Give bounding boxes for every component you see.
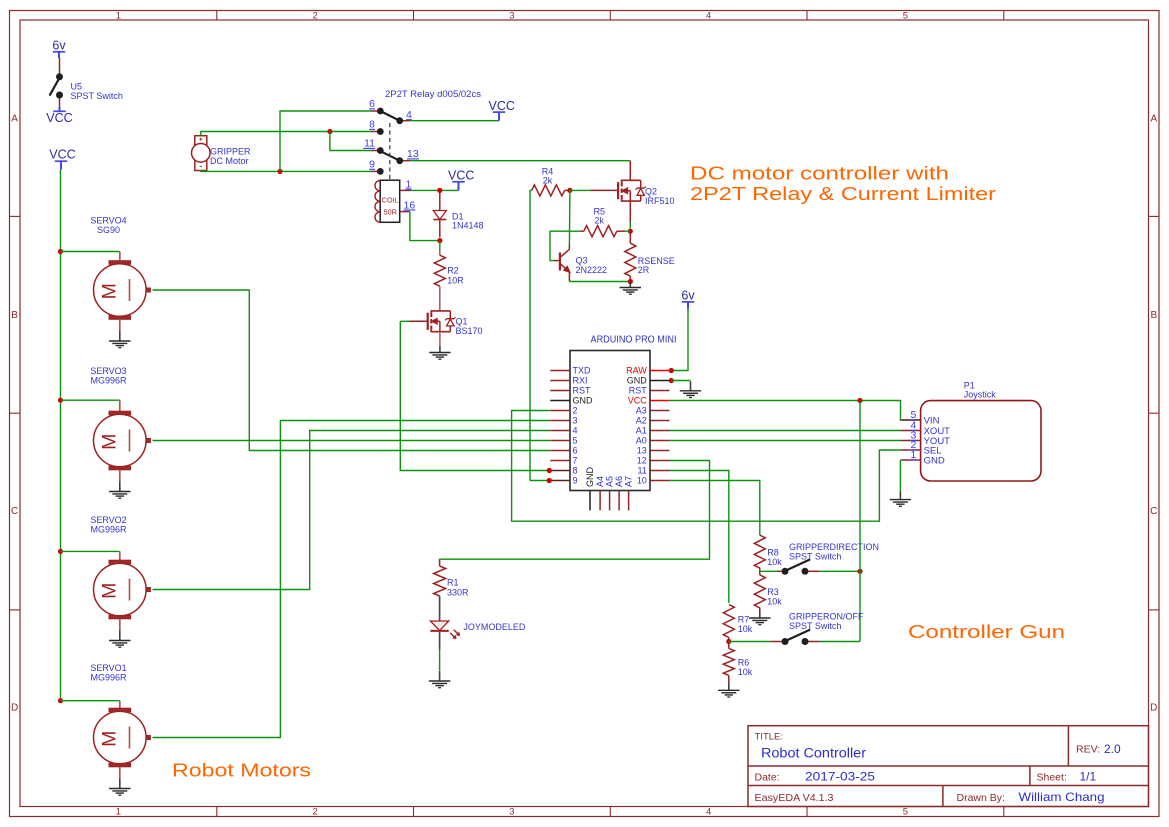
arduino left pin 5 [550, 440, 570, 442]
svg-text:R8: R8 [767, 547, 779, 557]
svg-text:D: D [11, 702, 18, 713]
relay coil pin 1 [400, 189, 411, 191]
svg-text:GND: GND [924, 455, 945, 466]
svg-text:2N2222: 2N2222 [576, 265, 608, 275]
wire pin 10 to R8 [670, 481, 760, 536]
wire Q2 source down [629, 201, 631, 222]
node junction Q2 source / R5 / RSENSE [628, 229, 633, 234]
wire Q1 source to ground [439, 332, 441, 347]
ground (RSENSE) [629, 282, 631, 288]
arduino left pin GND [550, 400, 570, 402]
wire pin 12 to R1 top [439, 461, 709, 560]
wire SERVO3 feed [61, 399, 120, 401]
svg-text:JOYMODELED: JOYMODELED [463, 622, 526, 632]
svg-text:330R: 330R [447, 587, 469, 597]
svg-text:GND: GND [585, 467, 595, 488]
svg-text:11: 11 [637, 466, 646, 476]
arduino bottom pin GND [589, 491, 591, 511]
motor SERVO1 MG996R [90, 663, 150, 795]
title block [748, 726, 1149, 807]
resistor R8 10k [754, 535, 782, 568]
svg-text:SERVO1: SERVO1 [90, 663, 126, 673]
switch GRIPPERON/OFF SPST [782, 638, 789, 645]
svg-text:SERVO4: SERVO4 [90, 216, 126, 226]
svg-text:A1: A1 [636, 426, 647, 436]
svg-text:6v: 6v [681, 289, 695, 303]
svg-text:William Chang: William Chang [1019, 790, 1105, 804]
arduino right pin RAW [650, 370, 670, 372]
svg-text:4: 4 [573, 426, 578, 436]
svg-text:TITLE:: TITLE: [755, 732, 784, 743]
relay contact pin 11 [371, 150, 377, 152]
svg-text:RAW: RAW [626, 366, 647, 376]
wire SERVO4 to pin 6 [153, 290, 551, 451]
svg-text:M: M [99, 583, 121, 599]
wire VCC branch vertical [859, 401, 861, 572]
wire Q2 drain up to relay 13 wire [629, 161, 631, 181]
arduino right pin A2 [650, 420, 670, 422]
svg-text:2017-03-25: 2017-03-25 [805, 770, 875, 784]
transistor Q3 2N2222 [560, 249, 607, 275]
connector P1 Joystick body [921, 380, 1041, 481]
node junction VCC wire [857, 398, 862, 403]
svg-text:10k: 10k [738, 624, 753, 634]
svg-text:3: 3 [573, 416, 578, 426]
resistor R4 2k [532, 167, 565, 196]
wire pin 11 to R7 [670, 471, 729, 604]
arduino right pin RST [650, 390, 670, 392]
svg-text:SPST Switch: SPST Switch [71, 91, 123, 101]
power flag VCC (coil) [458, 182, 460, 191]
svg-text:1: 1 [116, 806, 121, 817]
svg-text:1: 1 [116, 10, 121, 21]
svg-text:R6: R6 [738, 657, 750, 667]
svg-text:2k: 2k [543, 176, 553, 186]
arduino right pin 13 [650, 450, 670, 452]
wire branch to relay pin 6 [280, 111, 371, 171]
wire joystick GND to ground [899, 460, 901, 491]
svg-text:A6: A6 [614, 476, 624, 487]
svg-text:M: M [99, 434, 121, 450]
node junction pin 9 [547, 478, 552, 483]
node junction RSENSE / emitter / ground [628, 279, 633, 284]
svg-text:C: C [11, 506, 18, 517]
wire junction to Q2 gate [570, 189, 591, 191]
node junction RAW [669, 368, 674, 373]
wire A0 to YOUT [670, 440, 901, 442]
svg-text:Sheet:: Sheet: [1037, 772, 1067, 784]
arduino left pin 2 [550, 410, 570, 412]
arduino right pin 11 [650, 470, 670, 472]
wire coil pin 16 to D1 cathode [410, 212, 440, 241]
svg-text:A5: A5 [605, 476, 615, 487]
ground (LED) [439, 671, 441, 682]
node SERVO3 feed junction [58, 398, 63, 403]
svg-text:5: 5 [903, 10, 908, 21]
wire Q3 collector to R4 junction [568, 245, 570, 250]
relay contact pin 6 [371, 110, 377, 112]
resistor R2 10R [434, 251, 464, 286]
node SERVO4 feed junction [58, 249, 63, 254]
power flag 6v (top left) [52, 38, 66, 58]
motor SERVO4 SG90 [90, 216, 150, 348]
svg-text:A: A [11, 114, 18, 125]
svg-text:10: 10 [637, 476, 647, 486]
arduino left pin RST [550, 390, 570, 392]
wire Q1 gate to arduino pin 8 [400, 321, 547, 470]
svg-text:GRIPPERON/OFF: GRIPPERON/OFF [789, 611, 864, 621]
svg-text:2k: 2k [595, 216, 605, 226]
svg-text:6v: 6v [52, 38, 66, 52]
svg-text:12: 12 [637, 456, 647, 466]
joystick pin 5 VIN [901, 419, 921, 421]
svg-text:SERVO3: SERVO3 [90, 366, 126, 376]
svg-text:7: 7 [573, 456, 578, 466]
svg-text:GRIPPER: GRIPPER [210, 147, 251, 157]
arduino right pin VCC [650, 400, 670, 402]
joystick pin 2 SEL [901, 449, 921, 451]
wire SERVO3 to pin 5 [153, 440, 551, 442]
svg-text:13: 13 [637, 446, 647, 456]
node junction GND right [669, 378, 674, 383]
wire D1 junction to R2 [439, 241, 441, 253]
arduino right pin GND [650, 380, 670, 382]
wire LED to ground [439, 631, 441, 650]
arduino bottom pin A5 [609, 491, 611, 511]
svg-text:2: 2 [312, 10, 317, 21]
wire R1 to LED [439, 596, 441, 621]
relay actuation dashed link [389, 123, 391, 179]
svg-text:50R: 50R [384, 207, 397, 216]
node junction gripper bottom / pin6 branch [277, 169, 282, 174]
svg-text:4: 4 [706, 10, 711, 21]
svg-text:MG996R: MG996R [90, 673, 127, 683]
svg-text:RXI: RXI [573, 376, 588, 386]
svg-text:A: A [1150, 114, 1157, 125]
motor SERVO2 MG996R [90, 515, 150, 647]
resistor R5 2k [584, 207, 631, 237]
svg-text:RST: RST [573, 386, 592, 396]
svg-text:10k: 10k [767, 557, 782, 567]
svg-text:10R: 10R [447, 275, 464, 285]
wire branch to relay pin 11 [330, 132, 371, 151]
svg-text:VCC: VCC [448, 169, 474, 183]
wire Q3 emitter down [568, 272, 570, 281]
wire coil pin 1 to VCC / D1 [410, 189, 458, 191]
svg-text:Joystick: Joystick [964, 389, 997, 399]
svg-text:R7: R7 [738, 614, 750, 624]
svg-text:SERVO2: SERVO2 [90, 515, 126, 525]
svg-text:C: C [1150, 506, 1157, 517]
svg-text:R3: R3 [767, 587, 779, 597]
wire 6v to RAW [673, 309, 688, 371]
svg-text:2.0: 2.0 [1104, 742, 1121, 756]
relay COIL 50R [375, 180, 400, 222]
svg-text:EasyEDA V4.1.3: EasyEDA V4.1.3 [755, 792, 834, 804]
node junction pin 8 [547, 468, 552, 473]
power flag VCC (relay pin 4) [498, 112, 500, 121]
node SERVO2 feed junction [58, 549, 63, 554]
wire SERVO1 to pin 3 [153, 421, 551, 738]
ground (R3) [759, 612, 761, 619]
svg-text:Q3: Q3 [576, 255, 588, 265]
svg-text:10k: 10k [738, 667, 753, 677]
wire R3 to ground [759, 608, 761, 612]
svg-text:Date:: Date: [755, 772, 780, 784]
arduino left pin RXI [550, 380, 570, 382]
svg-text:2R: 2R [638, 265, 650, 275]
arduino bottom pin A6 [618, 491, 620, 511]
svg-text:5: 5 [573, 436, 578, 446]
svg-text:DC Motor: DC Motor [210, 156, 249, 166]
wire switch to VCC branch corner [808, 641, 819, 643]
svg-text:R1: R1 [447, 578, 459, 588]
arduino right pin A3 [650, 410, 670, 412]
wire R5 left to Q3 base [581, 230, 584, 232]
resistor R3 10k [754, 575, 782, 608]
relay contact pin 9 [371, 170, 377, 172]
wire Q1 gate from node [400, 320, 409, 322]
svg-text:SPST Switch: SPST Switch [789, 551, 841, 561]
arduino left pin TXD [550, 370, 570, 372]
ground (Q1 source) [439, 346, 441, 353]
svg-text:IRF510: IRF510 [645, 196, 675, 206]
svg-text:3: 3 [509, 10, 514, 21]
wire R4 left to arduino pin 9 [530, 190, 532, 480]
node junction D1 cathode / coil16 / R2 [437, 238, 442, 243]
svg-text:8: 8 [573, 466, 578, 476]
relay lever 11-13 [379, 151, 400, 161]
switch U5 SPST [50, 58, 123, 107]
wire gripper bottom to relay pin 9 [201, 170, 371, 173]
wire switch to VCC branch [808, 570, 819, 572]
svg-text:10k: 10k [767, 597, 782, 607]
wire SERVO2 to pin 4 [153, 431, 551, 590]
svg-text:M: M [99, 283, 121, 299]
svg-text:1N4148: 1N4148 [452, 221, 484, 231]
node junction R7 / R6 / switch [728, 638, 730, 642]
svg-text:VCC: VCC [46, 111, 72, 125]
power flag VCC (below U5) [46, 107, 72, 125]
diode D1 1N4148 [433, 190, 483, 237]
arduino left pin 8 [550, 470, 570, 472]
joystick pin 4 XOUT [901, 430, 921, 432]
arduino left pin 7 [550, 460, 570, 462]
svg-text:MG996R: MG996R [90, 376, 127, 386]
svg-text:VCC: VCC [488, 99, 514, 113]
transistor Q2 IRF510 [618, 180, 674, 206]
svg-text:A7: A7 [624, 476, 634, 487]
svg-text:B: B [1150, 310, 1157, 321]
svg-text:D: D [1150, 702, 1157, 713]
svg-text:A0: A0 [636, 436, 647, 446]
power flag VCC (servo bus) [49, 147, 75, 169]
svg-text:GRIPPERDIRECTION: GRIPPERDIRECTION [789, 542, 879, 552]
arduino bottom pin A4 [599, 491, 601, 511]
svg-text:2P2T Relay & Current Limiter: 2P2T Relay & Current Limiter [690, 183, 996, 204]
svg-text:TXD: TXD [573, 366, 592, 376]
transistor Q1 BS170 [428, 311, 483, 336]
motor SERVO3 MG996R [90, 366, 150, 498]
motor GRIPPER DC Motor [192, 136, 252, 171]
arduino right pin 12 [650, 460, 670, 462]
svg-text:3: 3 [509, 806, 514, 817]
svg-text:SG90: SG90 [97, 225, 120, 235]
svg-text:A2: A2 [636, 416, 647, 426]
wire SERVO2 feed [61, 550, 120, 552]
arduino left pin 4 [550, 430, 570, 432]
wire emitter to RSENSE bottom [569, 281, 630, 283]
resistor RSENSE 2R [625, 231, 675, 281]
svg-text:9: 9 [573, 476, 578, 486]
svg-text:VCC: VCC [49, 147, 75, 161]
svg-text:GND: GND [573, 396, 594, 406]
ground (R6) [728, 683, 730, 690]
joystick pin 1 GND [901, 459, 921, 461]
svg-text:VCC: VCC [628, 396, 648, 406]
wire relay pin 4 to VCC [403, 120, 410, 122]
svg-text:REV:: REV: [1076, 744, 1100, 756]
svg-text:SPST Switch: SPST Switch [789, 621, 841, 631]
wire R8/R3 node to switch [760, 570, 778, 572]
svg-text:COIL: COIL [382, 196, 399, 205]
svg-text:DC motor controller with: DC motor controller with [690, 163, 949, 184]
svg-text:RST: RST [629, 386, 648, 396]
svg-text:M: M [99, 731, 121, 747]
wire GND pin to ground [671, 380, 690, 382]
resistor R7 10k [723, 605, 753, 638]
wire VCC bus vertical [60, 170, 62, 701]
svg-text:R2: R2 [447, 266, 459, 276]
svg-text:Robot Controller: Robot Controller [761, 746, 867, 761]
arduino right pin 10 [650, 480, 670, 482]
arduino right pin A0 [650, 440, 670, 442]
svg-text:Robot Motors: Robot Motors [172, 760, 311, 781]
wire pin 2 to SEL bus [512, 411, 901, 522]
svg-text:VIN: VIN [924, 415, 940, 426]
resistor R6 10k [723, 642, 753, 677]
svg-text:GND: GND [627, 376, 648, 386]
svg-text:5: 5 [903, 806, 908, 817]
IC U? ARDUINO PRO MINI body [570, 335, 677, 491]
svg-text:BS170: BS170 [456, 326, 483, 336]
wire SERVO1 feed [61, 700, 120, 702]
wire R7 node to switch [729, 641, 771, 643]
svg-text:B: B [11, 310, 18, 321]
arduino bottom pin A7 [628, 491, 630, 511]
relay coil pin 16 [400, 211, 410, 213]
power flag 6v (RAW) [681, 289, 695, 309]
node junction coil pin1 / D1 [437, 188, 442, 193]
wire R2 to Q1 drain [439, 286, 441, 311]
ground (arduino GND) [690, 381, 692, 391]
node junction switch / VCC branch [857, 569, 862, 574]
svg-text:Q2: Q2 [645, 186, 657, 196]
relay contact pin 8 [371, 131, 377, 133]
svg-text:2P2T Relay d005/02cs: 2P2T Relay d005/02cs [385, 89, 481, 100]
LED JOYMODELED [430, 621, 526, 639]
svg-text:4: 4 [706, 806, 711, 817]
node SERVO1 feed junction [58, 698, 63, 703]
arduino left pin 3 [550, 420, 570, 422]
relay lever 6-4 [380, 111, 399, 121]
wire R4 right to junction [565, 189, 570, 191]
wire VCC to joystick VIN [670, 401, 921, 421]
switch GRIPPERDIRECTION SPST [782, 568, 789, 575]
svg-text:MG996R: MG996R [90, 525, 127, 535]
svg-text:2: 2 [573, 406, 578, 416]
joystick pin 3 YOUT [901, 440, 921, 442]
node junction gripper top / pin11 branch [327, 129, 332, 134]
svg-text:1/1: 1/1 [1080, 770, 1097, 784]
arduino left pin 9 [550, 480, 570, 482]
wire gripper top to relay pin 8 [201, 132, 371, 136]
svg-text:A3: A3 [636, 406, 647, 416]
arduino left pin 6 [550, 450, 570, 452]
svg-text:6: 6 [573, 446, 578, 456]
svg-text:A4: A4 [595, 476, 605, 487]
svg-text:Drawn By:: Drawn By: [957, 792, 1005, 804]
svg-text:U5: U5 [71, 82, 83, 92]
svg-text:Q1: Q1 [456, 316, 468, 326]
svg-text:2: 2 [312, 806, 317, 817]
node junction R4 / Q2 gate / Q3 collector [567, 188, 572, 193]
svg-text:ARDUINO PRO MINI: ARDUINO PRO MINI [591, 335, 677, 346]
resistor R1 330R [434, 559, 469, 597]
wire R6 to ground [728, 675, 730, 683]
wire A1 to XOUT [670, 430, 901, 432]
ground (joystick) [899, 491, 901, 500]
wire R8 bottom junction [759, 568, 761, 575]
svg-text:Controller Gun: Controller Gun [908, 621, 1065, 642]
arduino right pin A1 [650, 430, 670, 432]
wire relay pin 13 to Q2 drain [403, 160, 410, 162]
wire SERVO4 feed [61, 251, 120, 253]
